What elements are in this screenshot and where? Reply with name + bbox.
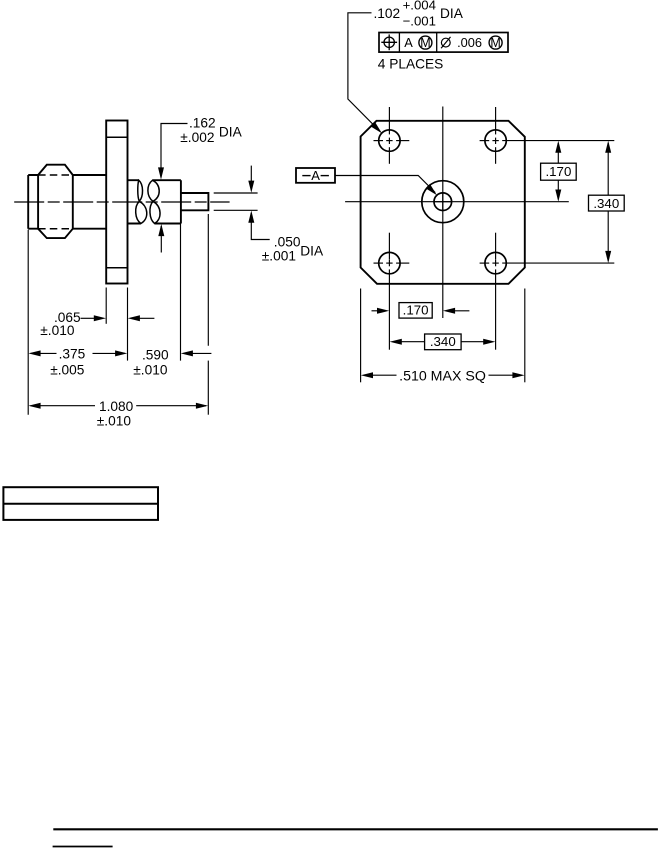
center conductor outer circle <box>422 181 464 223</box>
footer rule <box>53 828 658 830</box>
material condition M 2 <box>489 36 502 49</box>
svg-text:DIA: DIA <box>300 243 324 258</box>
dim .340 right <box>605 141 611 153</box>
svg-text:+.004: +.004 <box>403 0 436 12</box>
connector barrel body <box>28 175 106 229</box>
feature control frame box <box>379 33 508 53</box>
hole bottom-left center mark <box>388 233 390 260</box>
pin tip extension line <box>207 214 209 346</box>
dim .162 bottom arrow <box>158 224 164 236</box>
svg-text:±.002: ±.002 <box>180 130 214 145</box>
hole top-left center mark <box>388 107 390 134</box>
break line left upper lens <box>138 180 143 201</box>
flange vertical centerline <box>442 107 444 319</box>
dim .050 bottom arrow and leader <box>248 211 254 223</box>
svg-text:.006: .006 <box>457 35 482 50</box>
break line right lower lens <box>150 201 160 223</box>
barrel hidden edges <box>38 174 73 176</box>
mounting hole bottom-right <box>485 252 506 273</box>
dim .510 MAX SQ <box>361 372 373 378</box>
center conductor cross <box>434 201 452 203</box>
diameter symbol <box>441 38 450 47</box>
svg-text:.510 MAX SQ: .510 MAX SQ <box>399 368 486 384</box>
dim 1.080 <box>31 405 96 407</box>
center conductor inner circle <box>434 193 452 211</box>
svg-text:.050: .050 <box>274 234 301 249</box>
leader .102 note <box>348 13 380 132</box>
dielectric body <box>128 180 181 223</box>
dim .170 right <box>555 141 561 153</box>
svg-text:.590: .590 <box>142 347 169 362</box>
center pin <box>181 193 209 210</box>
dim .162 leader <box>161 124 188 178</box>
coupling nut hex <box>38 165 73 238</box>
svg-text:.170: .170 <box>403 303 429 318</box>
dim .375 <box>31 352 57 354</box>
svg-text:±.010: ±.010 <box>133 363 168 378</box>
svg-text:DIA: DIA <box>440 6 464 21</box>
svg-text:1.080: 1.080 <box>99 399 134 414</box>
dim .162 top arrow <box>158 167 164 179</box>
footer stub line <box>53 846 113 848</box>
break line right upper lens <box>148 180 159 201</box>
svg-text:.340: .340 <box>430 334 456 349</box>
svg-text:−.001: −.001 <box>403 13 436 28</box>
svg-text:A: A <box>311 168 320 183</box>
material condition M 1 <box>419 36 432 49</box>
svg-text:.375: .375 <box>59 347 86 362</box>
svg-text:.170: .170 <box>545 164 571 179</box>
left extension line <box>27 230 29 415</box>
flange plate outline <box>361 121 525 284</box>
svg-text:4 PLACES: 4 PLACES <box>378 56 443 71</box>
svg-text:.162: .162 <box>189 116 216 131</box>
break line left lower lens <box>136 201 147 223</box>
svg-text:M: M <box>420 36 430 50</box>
side view centerline <box>14 201 229 203</box>
svg-text:±.010: ±.010 <box>97 413 132 428</box>
bottom extension lines <box>360 289 362 383</box>
pin base extension line <box>180 223 182 361</box>
svg-text:±.001: ±.001 <box>262 248 296 263</box>
svg-text:.340: .340 <box>593 196 619 211</box>
dim .065 arrows <box>81 317 96 319</box>
hole bottom-right center mark <box>495 233 497 260</box>
svg-text:M: M <box>490 36 500 50</box>
datum A flag <box>296 168 335 183</box>
mounting hole top-left <box>379 130 400 151</box>
datum A leader <box>335 176 435 193</box>
svg-text:A: A <box>404 35 413 50</box>
mounting hole top-right <box>485 130 506 151</box>
dim .170 bottom <box>372 310 380 312</box>
dim .340 bottom <box>390 339 402 345</box>
dim .050 extension lines <box>214 192 258 194</box>
flange horizontal centerline <box>345 201 569 203</box>
svg-text:±.010: ±.010 <box>40 323 75 338</box>
hole top-right center mark <box>495 107 497 134</box>
flange chamfer lines <box>106 136 127 138</box>
mounting hole bottom-left <box>379 252 400 273</box>
svg-text:DIA: DIA <box>219 125 243 140</box>
flange extension lines <box>105 288 107 324</box>
position symbol <box>384 37 394 47</box>
svg-text:.102: .102 <box>374 6 401 21</box>
revision table <box>3 487 158 520</box>
dim .050 top arrow <box>250 166 252 191</box>
flange side view <box>106 121 127 284</box>
svg-text:±.005: ±.005 <box>50 362 85 377</box>
